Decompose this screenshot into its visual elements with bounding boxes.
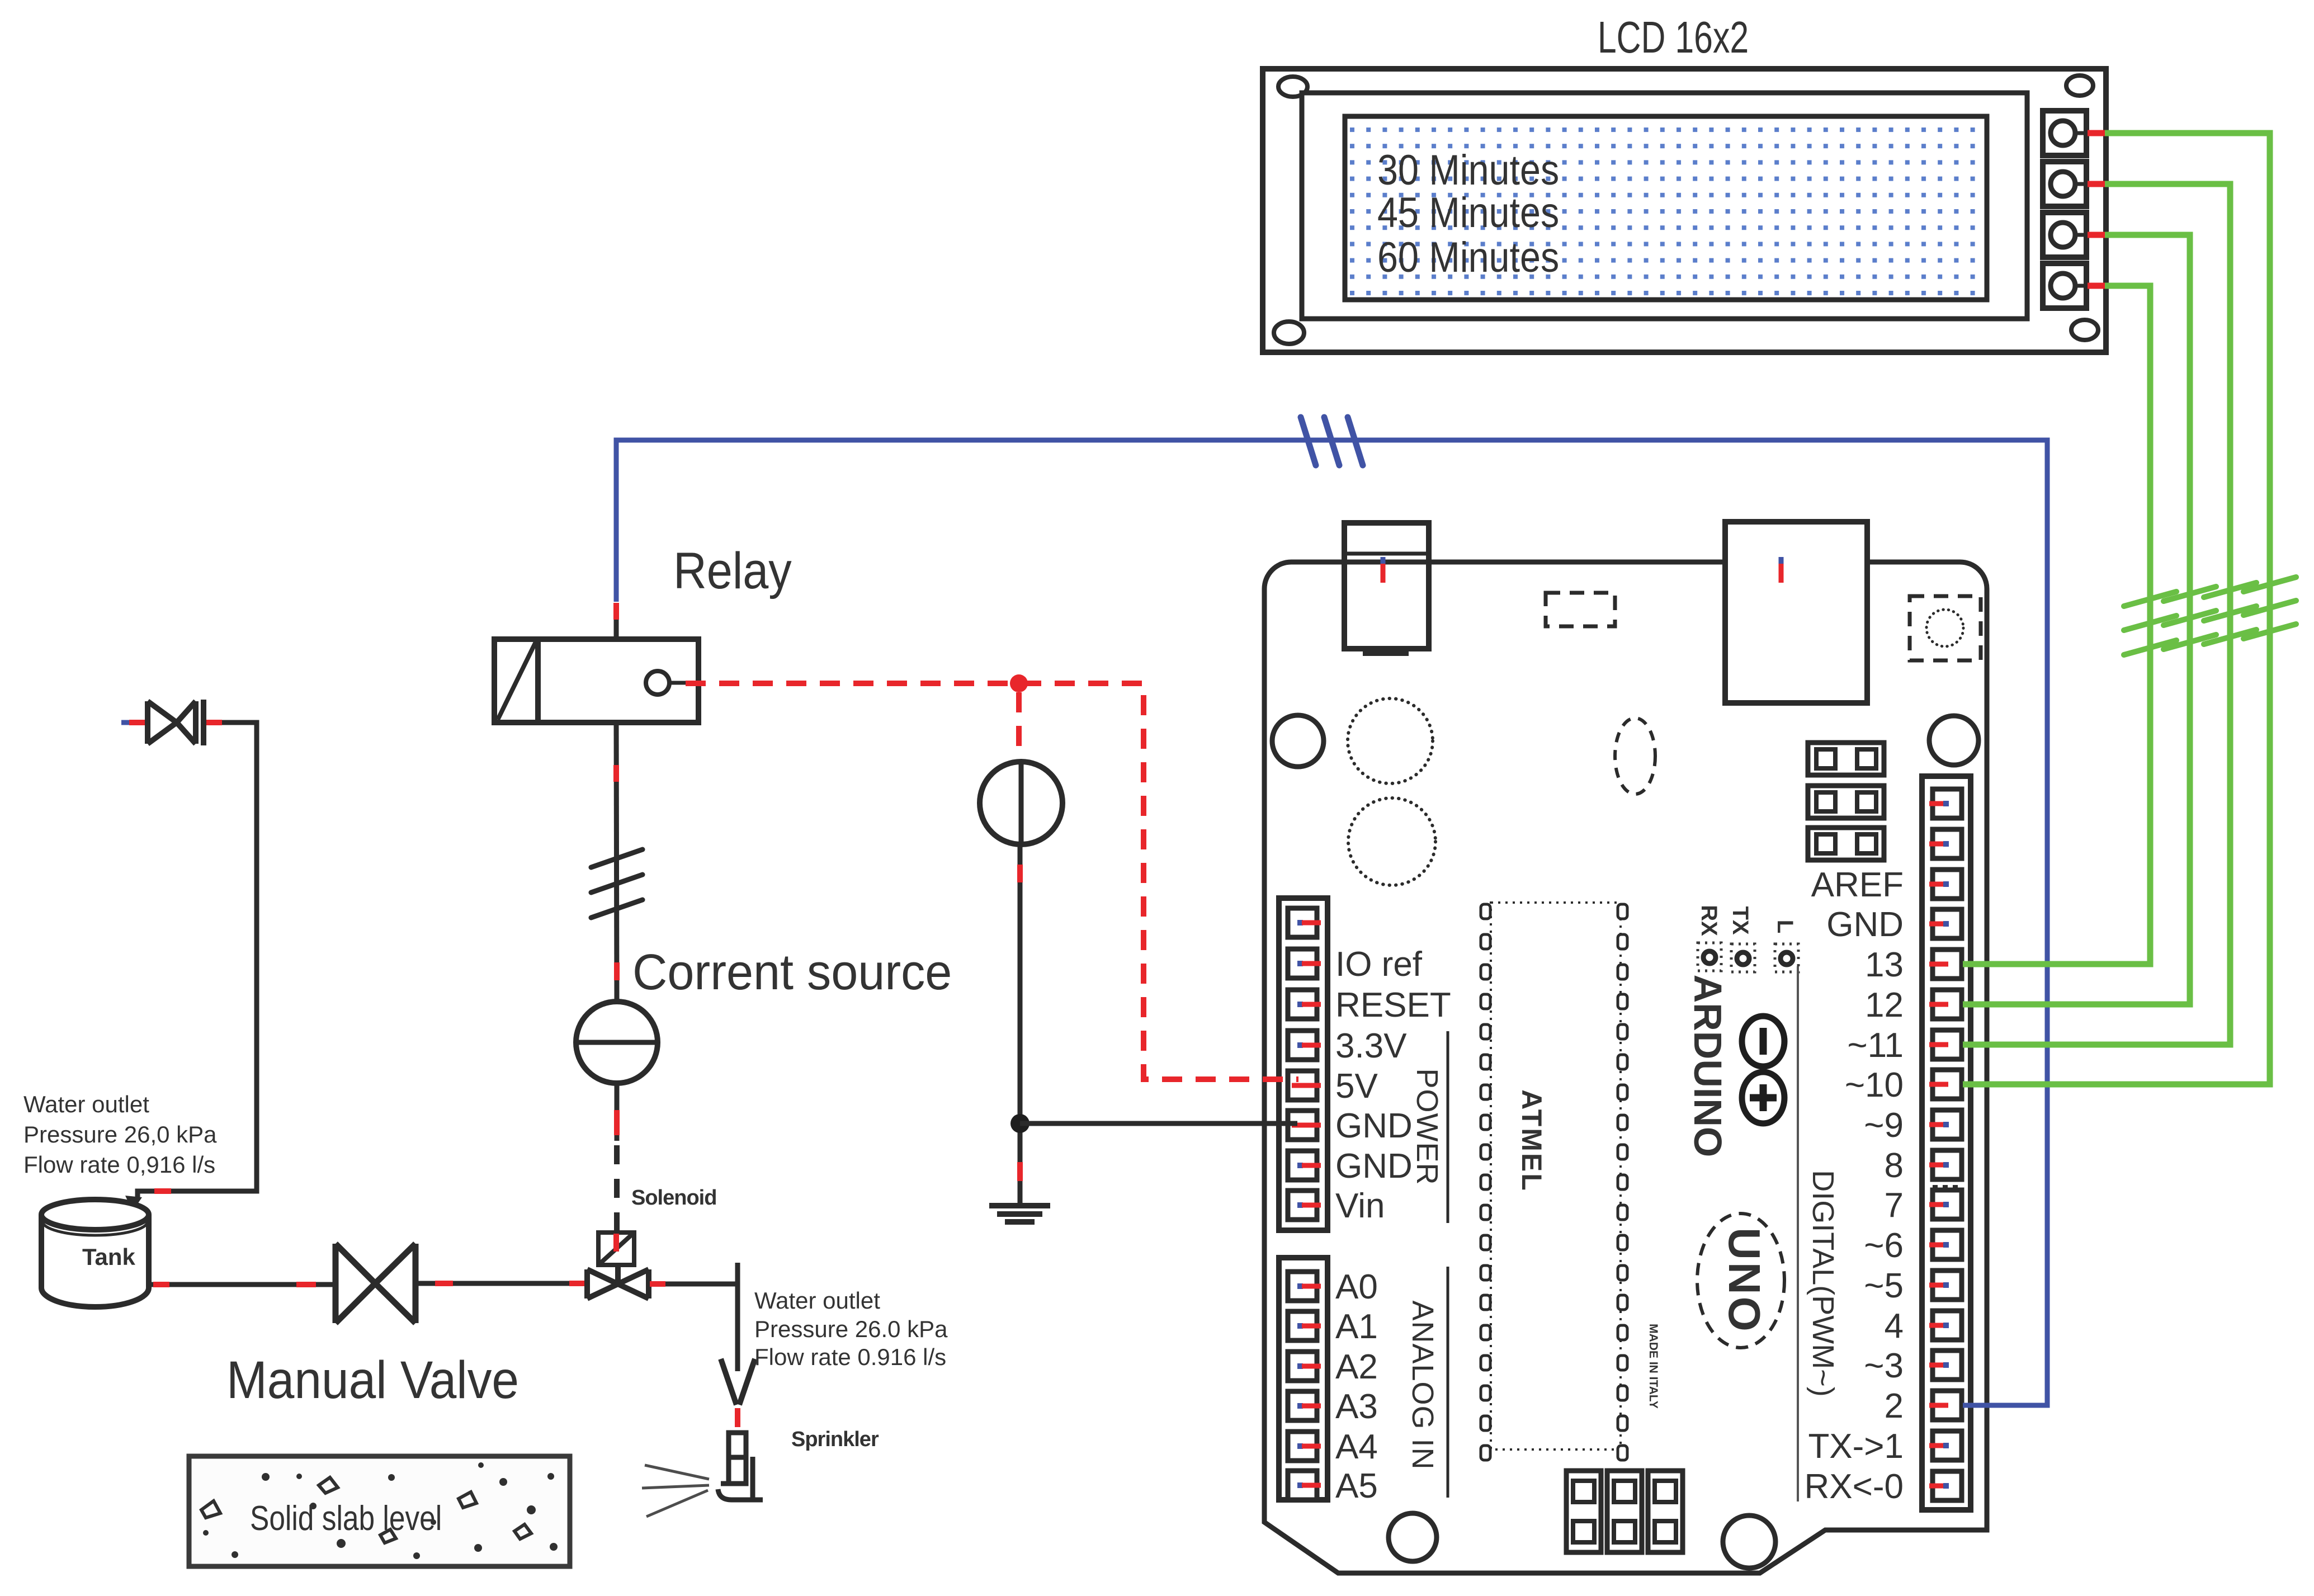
USB connector (1344, 523, 1429, 656)
breaker slashes green wire 4 (2244, 577, 2296, 639)
svg-text:A3: A3 (1335, 1387, 1378, 1426)
DIGITAL header pin stubs (1929, 801, 1949, 1489)
svg-text:5V: 5V (1335, 1067, 1378, 1106)
label Solid slab level (250, 1499, 442, 1538)
ANALOG IN pins (1288, 1272, 1317, 1500)
red dashed wire junction to voltage source (1016, 692, 1022, 761)
solid slab (189, 1456, 570, 1566)
LCD connector pin 1 (2043, 111, 2088, 155)
red stub top-left valve inlet (129, 720, 145, 725)
red stub LCD pin 4 (2088, 283, 2105, 289)
label Manual Valve (226, 1351, 519, 1410)
label Tank (82, 1244, 136, 1270)
svg-text:~9: ~9 (1864, 1106, 1904, 1145)
svg-text:12: 12 (1865, 986, 1904, 1024)
svg-text:A2: A2 (1335, 1348, 1378, 1386)
svg-text:GND: GND (1335, 1147, 1413, 1186)
svg-text:Corrent source: Corrent source (632, 943, 952, 1000)
svg-text:Flow rate 0.916 l/s: Flow rate 0.916 l/s (754, 1344, 946, 1370)
wire current source down (615, 1083, 620, 1141)
svg-text:Water outlet: Water outlet (754, 1287, 880, 1314)
svg-text:L: L (1773, 920, 1797, 933)
LED RX (1698, 943, 1721, 971)
wire from check valve down to tank inlet (138, 723, 257, 1198)
pin 8 dashed mark (1933, 1185, 1962, 1188)
bottom ICSP block 2 (1607, 1471, 1642, 1552)
wire green LCD pin4 to Arduino D13 (1963, 286, 2150, 964)
LCD screw hole bottom-left (1274, 322, 1304, 344)
solenoid actuator box (598, 1233, 634, 1265)
svg-text:Flow rate 0,916 l/s: Flow rate 0,916 l/s (23, 1151, 215, 1178)
label Corrent source (632, 943, 952, 1000)
LCD inner bezel (1302, 93, 2027, 319)
svg-text:TX->1: TX->1 (1808, 1427, 1904, 1466)
label DIGITAL (PWM~) (1806, 1170, 1840, 1397)
svg-text:TX: TX (1728, 906, 1753, 934)
pin labels A0-A5 (1335, 1268, 1378, 1505)
mounting hole top left (1272, 715, 1324, 767)
label ANALOG IN (1406, 1300, 1439, 1470)
red tick below voltage source (1017, 865, 1023, 882)
label Water outlet right (754, 1287, 948, 1370)
power pin mark (1779, 557, 1784, 583)
label Water outlet left (23, 1091, 217, 1178)
dashed rect near top (1546, 593, 1615, 626)
svg-text:Manual Valve: Manual Valve (226, 1351, 519, 1410)
svg-text:45 Minutes: 45 Minutes (1377, 189, 1559, 237)
LCD text line 30 Minutes (1377, 147, 1559, 194)
label TX (1728, 906, 1753, 934)
label ATMEL (1516, 1089, 1547, 1192)
UNO dashed ellipse (1697, 1213, 1784, 1348)
ATMEL chip outline (1491, 903, 1621, 1449)
svg-text:LCD 16x2: LCD 16x2 (1598, 13, 1749, 63)
svg-text:ANALOG IN: ANALOG IN (1406, 1300, 1439, 1470)
wire green LCD pin1 to Arduino D10 (1963, 133, 2270, 1084)
red tick above current source (614, 962, 620, 980)
svg-text:RESET: RESET (1335, 986, 1451, 1024)
breaker slashes blue wire (1301, 417, 1363, 465)
POWER separator line (1447, 1031, 1449, 1223)
red tick top of relay (613, 603, 619, 620)
check valve top-left (148, 700, 204, 745)
svg-text:Pressure 26,0 kPa: Pressure 26,0 kPa (23, 1121, 217, 1148)
mounting hole bottom right (1723, 1515, 1775, 1568)
mounting hole bottom left (1389, 1513, 1437, 1561)
label L (1773, 920, 1797, 933)
svg-text:A1: A1 (1335, 1307, 1378, 1346)
ICSP header top (1808, 743, 1884, 860)
svg-text:Vin: Vin (1335, 1187, 1385, 1225)
breaker slashes green wire 1 (2124, 592, 2176, 655)
LCD screen with dot matrix (1345, 116, 1987, 300)
red tick solenoid box (613, 1234, 619, 1252)
wire green LCD pin3 to Arduino D12 (1963, 235, 2190, 1004)
svg-text:A5: A5 (1335, 1467, 1378, 1505)
LED L (1775, 944, 1798, 972)
label LCD 16x2 (1598, 13, 1749, 63)
svg-text:POWER: POWER (1410, 1068, 1444, 1185)
LED TX (1731, 944, 1755, 972)
red tick below current source (614, 1110, 620, 1135)
label Relay (673, 542, 792, 599)
red dash after manual valve (435, 1281, 453, 1286)
red dash above sprinkler (735, 1408, 740, 1427)
voltage source symbol (980, 762, 1062, 844)
svg-text:~10: ~10 (1845, 1066, 1904, 1104)
ATMEL chip pads left (1481, 904, 1490, 1460)
red tick above ground (1017, 1162, 1023, 1181)
sprinkler spray lines (642, 1465, 709, 1517)
svg-text:Solenoid: Solenoid (631, 1186, 716, 1210)
svg-text:Tank: Tank (82, 1244, 136, 1270)
red dash after tank (153, 1282, 169, 1287)
svg-text:8: 8 (1885, 1146, 1904, 1185)
wire blue relay to pin 2 (616, 440, 2047, 1405)
mounting hole top right (1929, 716, 1978, 765)
label RX (1697, 905, 1721, 936)
current source symbol (576, 1002, 658, 1083)
DIGITAL header block (1922, 776, 1971, 1510)
dotted circle upper (1348, 698, 1433, 783)
POWER header block (1279, 898, 1328, 1230)
ATMEL chip pads right (1618, 904, 1627, 1460)
svg-text:Water outlet: Water outlet (23, 1091, 149, 1117)
svg-text:3.3V: 3.3V (1335, 1027, 1407, 1065)
svg-text:A0: A0 (1335, 1268, 1378, 1306)
label POWER (1410, 1068, 1444, 1185)
svg-text:7: 7 (1885, 1186, 1904, 1225)
breaker slashes green wire 3 (2204, 583, 2256, 644)
wire blue-to-relay black segment (614, 620, 619, 639)
dashed ellipse (1615, 718, 1655, 794)
label UNO (1720, 1227, 1769, 1334)
solenoid valve body (587, 1265, 649, 1298)
wire tank to manual valve (149, 1282, 336, 1287)
red tick below relay (613, 765, 619, 782)
red dash before solenoid valve (569, 1281, 586, 1286)
LCD text line 60 Minutes (1377, 234, 1559, 281)
breaker slashes on relay wire (591, 849, 643, 918)
red stub LCD pin 2 (2088, 181, 2105, 187)
wire junction to GND pin (1020, 1121, 1297, 1126)
red dash before manual valve (296, 1282, 316, 1287)
svg-text:IO ref: IO ref (1335, 945, 1423, 984)
red stub LCD pin 3 (2088, 232, 2105, 238)
label MADE IN ITALY (1647, 1324, 1660, 1409)
svg-text:AREF: AREF (1811, 866, 1904, 904)
svg-text:UNO: UNO (1720, 1227, 1769, 1334)
DIGITAL header pins (1933, 789, 1962, 1500)
label Solenoid (631, 1186, 716, 1210)
svg-text:~3: ~3 (1864, 1347, 1904, 1385)
label Sprinkler (791, 1428, 879, 1451)
label ARDUINO (1686, 975, 1730, 1158)
svg-text:GND: GND (1335, 1107, 1413, 1145)
blue stub top-left valve inlet (121, 720, 129, 725)
ANALOG IN pin stubs (1297, 1283, 1321, 1488)
wire manual valve to solenoid valve (415, 1281, 587, 1286)
LCD connector pin 4 (2043, 263, 2088, 308)
bottom ICSP block 3 (1648, 1471, 1683, 1552)
red dash after solenoid valve (650, 1281, 665, 1287)
svg-text:RX: RX (1697, 905, 1721, 936)
junction node black (1010, 1114, 1030, 1133)
svg-text:4: 4 (1885, 1307, 1904, 1345)
dashed square top right (1910, 596, 1981, 660)
thin separator line (1797, 966, 1799, 1501)
bottom ICSP block 1 (1566, 1471, 1601, 1552)
svg-text:~5: ~5 (1864, 1267, 1904, 1305)
junction node red (1010, 674, 1028, 692)
red stub top-left valve outlet (206, 720, 222, 725)
svg-text:2: 2 (1885, 1387, 1904, 1425)
wire relay bottom to current source (616, 723, 617, 1002)
wire solenoid valve to sprinkler drop (649, 1263, 738, 1371)
manual valve (336, 1244, 415, 1323)
svg-text:~6: ~6 (1864, 1226, 1904, 1265)
svg-text:Pressure 26.0 kPa: Pressure 26.0 kPa (754, 1316, 948, 1342)
POWER header pin stubs (1292, 920, 1321, 1208)
svg-text:DIGITAL(PWM~): DIGITAL(PWM~) (1806, 1170, 1840, 1397)
minus symbol (1742, 1016, 1784, 1066)
LCD screw hole top-right (2066, 75, 2093, 96)
svg-text:Sprinkler: Sprinkler (791, 1428, 879, 1451)
arrowhead into tank (125, 1196, 142, 1211)
pin label IO ref (1335, 945, 1451, 1225)
ANALOG IN separator line (1447, 1267, 1449, 1498)
plus symbol (1742, 1072, 1784, 1123)
svg-text:RX<-0: RX<-0 (1805, 1467, 1904, 1506)
wire voltage source to ground junction (1018, 844, 1023, 1206)
svg-text:A4: A4 (1335, 1428, 1378, 1466)
LCD connector pin 2 (2043, 162, 2088, 206)
svg-text:30 Minutes: 30 Minutes (1377, 147, 1559, 194)
digital pin labels (1805, 866, 1904, 1506)
tank (41, 1200, 149, 1307)
red stub LCD pin 1 (2088, 130, 2105, 136)
power connector (1725, 522, 1867, 703)
svg-text:60 Minutes: 60 Minutes (1377, 234, 1559, 281)
dashed control wire to solenoid (614, 1145, 620, 1233)
LCD text line 45 Minutes (1377, 189, 1559, 237)
ANALOG IN header block (1279, 1258, 1328, 1500)
POWER header pins (1288, 908, 1317, 1220)
sprinkler body (718, 1433, 763, 1500)
LCD screw hole top-left (1278, 77, 1307, 97)
breaker slashes green wire 2 (2164, 587, 2216, 649)
ground symbol (989, 1206, 1050, 1222)
svg-text:GND: GND (1826, 905, 1904, 944)
arrowhead to sprinkler (721, 1359, 755, 1405)
LCD board outer frame (1263, 69, 2106, 352)
svg-text:ATMEL: ATMEL (1516, 1089, 1547, 1192)
svg-text:MADE IN ITALY: MADE IN ITALY (1647, 1324, 1660, 1409)
relay K1 (494, 639, 698, 723)
USB pin mark (1381, 557, 1386, 583)
svg-text:Relay: Relay (673, 542, 792, 599)
red dashed wire relay to 5V (686, 683, 1298, 1079)
svg-text:~11: ~11 (1847, 1026, 1904, 1065)
dotted circle lower (1348, 798, 1435, 885)
wire green LCD pin2 to Arduino D11 (1963, 184, 2230, 1045)
red dash on tank inlet wire (154, 1188, 171, 1194)
LCD connector pin 3 (2043, 213, 2088, 257)
Arduino board outline (1264, 562, 1987, 1573)
svg-text:13: 13 (1865, 946, 1904, 984)
svg-text:Solid slab level: Solid slab level (250, 1499, 442, 1538)
svg-text:ARDUINO: ARDUINO (1686, 975, 1730, 1158)
LCD screw hole bottom-right (2071, 320, 2098, 340)
